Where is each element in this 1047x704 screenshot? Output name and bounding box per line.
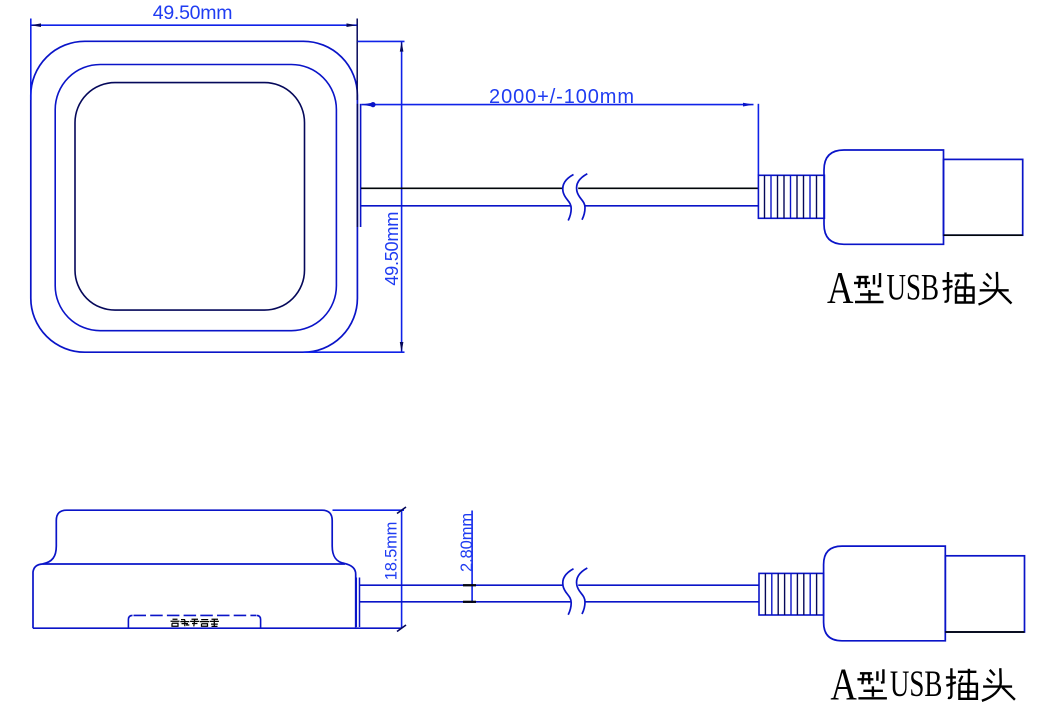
- bottom tick: [397, 625, 406, 632]
- dimension 18.5mm vertical: [333, 507, 407, 632]
- tick at cable bottom: [463, 601, 476, 603]
- USB metal shell (side view): [945, 556, 1024, 632]
- bottom extension line: [304, 351, 405, 353]
- dimension 2.80mm (cable diameter): [463, 511, 476, 603]
- side view: cable stub: [356, 578, 359, 628]
- svg-text:49.50mm: 49.50mm: [382, 212, 402, 286]
- cable break symbol (top view): [563, 174, 588, 221]
- top extension line: [358, 40, 405, 42]
- svg-text:18.5mm: 18.5mm: [383, 522, 401, 580]
- dimension text 18.5mm: [383, 522, 401, 580]
- left arrowhead: [362, 103, 373, 107]
- label 高强度磁铁 (tiny): [171, 619, 219, 626]
- cable (top view) upper line: [361, 187, 758, 189]
- USB plug molded body (side view): [824, 546, 946, 641]
- USB strain relief ribs (side view): [759, 573, 824, 615]
- base right edge: [345, 563, 356, 627]
- svg-text:A: A: [827, 262, 854, 313]
- svg-text:USB: USB: [890, 664, 943, 704]
- CJK 型: [854, 273, 884, 302]
- side view: magnet (dashed outline): [128, 615, 260, 628]
- dimension 49.50mm horizontal (top) : dimension line: [31, 19, 357, 101]
- USB plug molded body (top view): [824, 150, 944, 244]
- dimension 49.50mm vertical (right of top view): [304, 41, 405, 352]
- svg-text:2000+/-100mm: 2000+/-100mm: [489, 86, 635, 108]
- CJK 头: [979, 272, 1012, 305]
- svg-text:49.50mm: 49.50mm: [153, 2, 233, 24]
- top view: middle rounded-square outline: [55, 65, 336, 331]
- svg-text:A: A: [830, 658, 857, 704]
- dimension 2.80mm tick marks (over cable lines): [463, 585, 476, 602]
- dimension text 49.50mm (vertical): [382, 212, 402, 286]
- bottom arrowhead: [400, 342, 404, 352]
- USB metal shell (top view): [944, 159, 1023, 235]
- right extension line: [356, 19, 358, 101]
- right arrowhead: [743, 103, 754, 107]
- svg-text:USB: USB: [887, 268, 940, 309]
- svg-text:2.80mm: 2.80mm: [458, 513, 476, 572]
- dimension text 2000+/-100mm: [489, 86, 635, 108]
- cable (side view) lower line: [360, 601, 760, 603]
- top view: inner rounded-square outline: [75, 83, 305, 311]
- right extension line down to strain relief: [757, 104, 759, 176]
- left extension line: [30, 19, 32, 101]
- top extension line: [333, 509, 405, 511]
- tick at cable top: [463, 584, 476, 586]
- cable (side view) upper line: [360, 584, 760, 586]
- label A型USB插头 (top): [827, 262, 1012, 313]
- right arrowhead: [347, 23, 357, 27]
- cable (top view) lower line: [361, 205, 758, 207]
- CJK 插: [943, 272, 974, 303]
- side view: top dome outline with flared skirt: [43, 510, 345, 564]
- dimension text 49.50mm (top): [153, 2, 233, 24]
- USB strain relief ribs (top view): [758, 175, 824, 218]
- top view: outer housing rounded-square outline: [31, 41, 358, 352]
- cable break symbol (side view): [563, 568, 588, 615]
- dimension text 2.80mm: [458, 513, 476, 572]
- side view: base outline: [33, 563, 402, 628]
- dimension 2000+/-100mm : dimension line with arrows: [362, 102, 759, 175]
- left arrowhead: [31, 23, 41, 27]
- top tick: [397, 507, 406, 514]
- top arrowhead: [400, 41, 404, 51]
- label A型USB插头 (bottom): [830, 658, 1015, 704]
- base bottom edge + extension to dimension line: [33, 627, 402, 629]
- base top edge: [43, 563, 346, 565]
- top view: cable exit stub on right side of housing: [357, 104, 360, 227]
